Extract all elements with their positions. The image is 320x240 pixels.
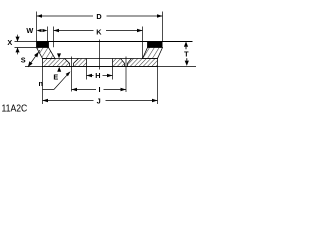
D arrow right (157, 14, 163, 17)
W arrow right (42, 29, 47, 32)
svg-text:W: W (26, 26, 33, 35)
J extension left (42, 67, 44, 105)
H arrow right (107, 74, 113, 77)
abrasive rim left (black) (36, 41, 49, 47)
X arrow bottom (17, 48, 19, 55)
J arrow right (152, 99, 158, 102)
svg-text:D: D (96, 12, 101, 21)
H dimension line (87, 75, 94, 77)
E leader arrowhead (66, 71, 71, 76)
W extension right (47, 27, 49, 42)
I arrow right (121, 88, 127, 91)
abrasive rim right (black) (147, 41, 162, 47)
svg-text:E: E (53, 73, 58, 82)
I dimension line (72, 89, 97, 91)
S dimension slanted line (28, 50, 40, 67)
svg-text:J: J (97, 96, 101, 105)
svg-text:K: K (96, 27, 102, 36)
back band with bore H and two countersunk screw holes (43, 59, 158, 67)
E arrow up (at back face) (57, 67, 61, 72)
D extension left (36, 12, 38, 42)
T arrow up (184, 42, 188, 47)
X arrow top (17, 35, 19, 42)
svg-text:T: T (184, 49, 189, 58)
I arrow left (72, 88, 78, 91)
back face line (extends left for S, right for T) (25, 66, 196, 68)
right wall (hatched) (143, 48, 163, 59)
E leader line (bent) (43, 74, 68, 89)
svg-text:H: H (95, 71, 100, 80)
K dimension line (54, 30, 94, 32)
J dimension line (43, 100, 94, 102)
center line of wheel (99, 40, 101, 70)
X extension bottom (15, 47, 37, 49)
K arrow left (54, 29, 60, 32)
left wall (hatched) (37, 48, 56, 59)
D extension right (162, 12, 164, 42)
H extension right (112, 67, 114, 80)
K arrow right (137, 29, 143, 32)
X extension top (left of wheel) (15, 41, 37, 43)
H extension left (86, 67, 88, 80)
svg-text:I: I (98, 85, 100, 94)
E arrow down (at cup floor) (57, 53, 61, 58)
svg-text:11A2C: 11A2C (2, 104, 28, 115)
svg-text:S: S (21, 56, 26, 65)
K extension right (142, 27, 144, 59)
wheel top face line (extends right as T extension) (37, 41, 193, 43)
right screw hole center line / I extension (125, 57, 127, 93)
J arrow left (43, 99, 49, 102)
D arrow left (37, 14, 43, 17)
svg-text:X: X (7, 38, 12, 47)
S arrow upper (34, 52, 39, 58)
W arrow left (37, 29, 42, 32)
left screw hole center line / I extension (71, 57, 73, 92)
T arrow down (185, 61, 189, 66)
D dimension line (37, 15, 94, 17)
H arrow left (87, 74, 93, 77)
K extension left (53, 27, 55, 48)
svg-text:n: n (38, 79, 42, 88)
S arrow lower (28, 61, 33, 67)
J extension right (157, 67, 159, 105)
